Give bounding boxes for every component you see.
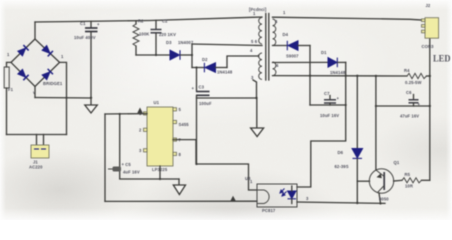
optocoupler U3 PC817 [245, 176, 309, 213]
node C3 stem joins [195, 163, 197, 165]
svg-text:LED: LED [433, 54, 451, 65]
svg-text:BRIDGE1: BRIDGE1 [43, 81, 63, 86]
wire top-left bus [35, 17, 262, 22]
wire to primary top tap [192, 44, 262, 46]
capacitor C1 [74, 21, 100, 98]
IC U1 LP3225 [139, 100, 189, 172]
svg-text:100K: 100K [139, 32, 149, 37]
svg-text:U1: U1 [154, 100, 160, 105]
node rail junctions [309, 75, 311, 77]
right rail from LED connector [429, 39, 431, 181]
bottom rail right of opto [297, 202, 385, 203]
svg-text:1N4148: 1N4148 [330, 70, 346, 75]
svg-text:5 6: 5 6 [251, 39, 258, 44]
opto phototransistor curve [257, 190, 269, 204]
wire D4 drop to rail [309, 46, 311, 106]
capacitor C6 [376, 90, 430, 119]
wire secondary top to LED connector [273, 17, 422, 20]
wire AC bottom [7, 134, 67, 136]
bridge diode SE [42, 69, 53, 80]
svg-text:D6: D6 [338, 150, 344, 155]
svg-text:D4: D4 [283, 32, 289, 37]
secondary lower winding [273, 62, 276, 76]
ground near C1 [85, 98, 98, 113]
resistor R4 [404, 68, 430, 85]
wire right vertex drop [60, 62, 67, 134]
node left rails top [119, 113, 121, 115]
main output rail [273, 75, 408, 77]
wire left rail A [104, 114, 106, 201]
node C7 wire end [345, 104, 347, 106]
ground under IC [173, 179, 185, 195]
wire left rail B [120, 114, 179, 179]
pin stubs right [173, 108, 177, 111]
svg-text:C2: C2 [162, 19, 168, 24]
wire D1 drop and feedback run [297, 62, 346, 187]
wire C3 to transformer pin3 [197, 97, 257, 99]
capacitor C7 [310, 91, 346, 118]
transformer T1 [249, 7, 286, 80]
svg-text:S455: S455 [179, 122, 190, 127]
svg-text:47uF 16V: 47uF 16V [400, 114, 419, 119]
fuse F1 [4, 62, 13, 134]
svg-text:C7: C7 [324, 91, 330, 96]
connector J1 AC220 [29, 135, 49, 170]
resistor R2 [133, 19, 149, 56]
primary upper winding [259, 18, 262, 44]
svg-text:10R: 10R [405, 184, 413, 189]
wire R2/C2 bottom to D3 [136, 54, 170, 56]
wire DC minus bus [35, 97, 91, 100]
wire zener to base [357, 180, 369, 182]
pin stubs left [144, 112, 148, 115]
svg-text:100uF: 100uF [199, 101, 212, 106]
node C1 minus [90, 97, 92, 99]
wire D2 to primary pin4 [227, 56, 259, 68]
wire pin4 stub mark [258, 55, 260, 58]
connector J2 LED [422, 3, 439, 49]
diode D2 1N4148 [192, 57, 233, 75]
wire IC pin1 feed [105, 113, 147, 115]
capacitor C5 [108, 162, 140, 175]
capacitor C3 [192, 66, 212, 164]
node pin3 bottom [255, 97, 257, 99]
svg-text:1N4148: 1N4148 [217, 70, 233, 75]
svg-text:F1: F1 [8, 87, 14, 92]
node crossing [65, 97, 67, 99]
svg-text:PC817: PC817 [262, 208, 276, 213]
core [265, 14, 267, 81]
svg-text:8050: 8050 [379, 197, 389, 202]
svg-text:220 1KV: 220 1KV [159, 32, 176, 37]
svg-text:J2: J2 [426, 3, 431, 8]
svg-text:S9007: S9007 [286, 54, 299, 59]
transistor Q1 8050 [369, 76, 400, 203]
wire bridge bottom stem [34, 87, 36, 98]
node C2 bottom [155, 54, 157, 56]
svg-text:0.25-5W: 0.25-5W [405, 80, 422, 85]
svg-text:C1: C1 [80, 21, 86, 26]
diode D4 [273, 32, 311, 59]
zener D6 [335, 76, 363, 203]
primary lower winding [259, 53, 262, 79]
capacitor C2 [151, 19, 177, 56]
svg-text:10uF 400V: 10uF 400V [74, 35, 96, 40]
node Q1 emitter bottom [379, 202, 381, 204]
arrow junction on rail [230, 196, 236, 201]
arrow up near IC pin1 [137, 108, 142, 114]
svg-text:D1: D1 [321, 50, 327, 55]
wire bridge top stem [34, 22, 36, 39]
wire IC gnd stem [159, 166, 161, 179]
bridge diode SW [17, 69, 28, 80]
diode D1 1N4148 [273, 50, 346, 75]
svg-text:C3: C3 [199, 85, 205, 90]
wire pin3 drop [253, 80, 257, 98]
opto arrows [281, 189, 285, 193]
bridge diode NW [17, 45, 28, 56]
bridge diode NE [42, 45, 53, 56]
svg-text:+ C5: + C5 [122, 162, 132, 167]
svg-text:4uF 16V: 4uF 16V [123, 170, 140, 175]
svg-text:C6: C6 [406, 90, 412, 95]
svg-text:Q1: Q1 [394, 160, 400, 165]
svg-text:62-39S: 62-39S [335, 164, 349, 169]
wire riser to transformer pin6 [191, 44, 193, 68]
bridge BRIDGE1 diamond [7, 39, 64, 95]
secondary upper winding [273, 19, 276, 45]
ground under transformer [251, 98, 264, 137]
svg-text:D3: D3 [166, 40, 172, 45]
node D6 bottom [356, 202, 358, 204]
svg-text:D2: D2 [202, 57, 208, 62]
node D3 out [191, 54, 193, 56]
svg-text:AC220: AC220 [29, 165, 43, 170]
svg-text:R4: R4 [404, 68, 410, 73]
diode D3 1N4007 [166, 40, 194, 60]
svg-text:[Pcdnci]: [Pcdnci] [249, 7, 267, 12]
resistor R5 [394, 172, 430, 189]
opto LED [288, 191, 297, 199]
svg-text:R5: R5 [405, 172, 411, 177]
svg-text:10uF 16V: 10uF 16V [320, 113, 339, 118]
svg-text:R2: R2 [138, 19, 144, 24]
svg-text:CON3: CON3 [422, 44, 435, 49]
bottom ground rail left [105, 200, 257, 202]
wire IC pin to optocoupler [173, 140, 257, 190]
